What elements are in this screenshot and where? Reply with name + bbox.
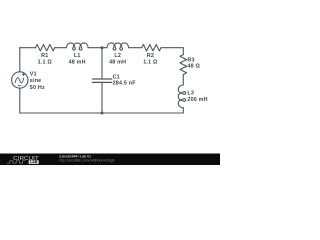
svg-text:200 mH: 200 mH — [187, 97, 207, 103]
svg-text:V1: V1 — [30, 72, 37, 78]
svg-text:R2: R2 — [147, 53, 154, 59]
inductor L1 — [67, 43, 89, 50]
svg-text:48 mH: 48 mH — [69, 60, 86, 66]
wire top segment to R1 — [20, 47, 36, 49]
svg-text:LAB: LAB — [30, 160, 38, 164]
wire C1 branch lower — [101, 82, 103, 113]
svg-text:R3: R3 — [187, 57, 194, 63]
inductor L3 — [178, 85, 185, 108]
resistor R2 — [142, 45, 161, 51]
svg-text:L1: L1 — [74, 53, 81, 59]
svg-text:50 Hz: 50 Hz — [30, 85, 45, 91]
svg-text:http://circuitlab.com/c488mbnx: http://circuitlab.com/c488mbnx63zg8 — [59, 158, 114, 162]
svg-text:284.5 nF: 284.5 nF — [113, 81, 137, 87]
inductor L2 — [107, 43, 129, 50]
wire L1 to L2 through node — [88, 47, 107, 49]
svg-text:sine: sine — [30, 78, 42, 84]
source V1 — [12, 72, 28, 88]
wire R3 to L3 — [182, 75, 184, 86]
svg-text:L2: L2 — [114, 53, 121, 59]
svg-text:R1: R1 — [41, 53, 48, 59]
svg-text:48 Ω: 48 Ω — [187, 64, 200, 70]
capacitor C1 — [93, 79, 112, 82]
node A (junction top) — [101, 46, 104, 49]
logo LAB box — [29, 160, 39, 164]
wire bottom — [20, 112, 184, 114]
wire L3 to bottom-right corner — [182, 108, 184, 113]
svg-text:1.1 Ω: 1.1 Ω — [38, 60, 53, 66]
logo square wave — [7, 161, 26, 163]
wire left rail top (V1 top to top-left corner) — [19, 48, 21, 72]
wire R1 to L1 — [55, 47, 67, 49]
svg-text:48 mH: 48 mH — [109, 60, 126, 66]
wire L2 to R2 — [129, 47, 142, 49]
svg-text:C1: C1 — [113, 74, 120, 80]
wire left rail bottom — [19, 88, 21, 113]
resistor R1 — [36, 45, 55, 51]
svg-text:1.1 Ω: 1.1 Ω — [143, 60, 158, 66]
wire C1 branch upper — [101, 48, 103, 79]
node B (junction bottom) — [101, 112, 104, 115]
svg-text:L3: L3 — [187, 91, 194, 97]
resistor R3 — [180, 55, 187, 75]
footer bar — [0, 154, 220, 166]
wire R2 to top-right corner and down — [161, 48, 183, 55]
